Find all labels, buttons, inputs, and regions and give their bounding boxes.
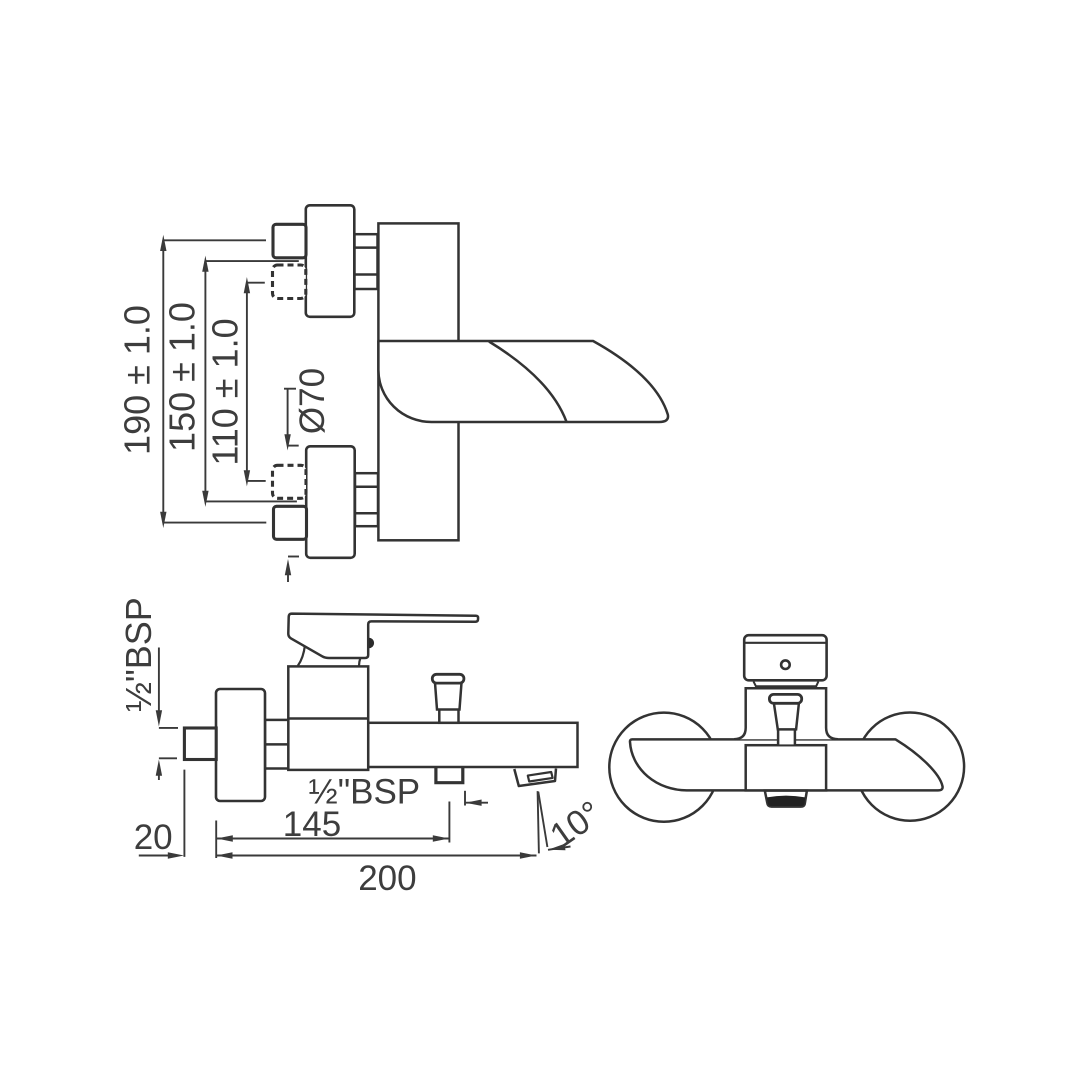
svg-text:½"BSP: ½"BSP (309, 773, 421, 812)
svg-text:200: 200 (358, 859, 416, 898)
svg-text:190 ± 1.0: 190 ± 1.0 (117, 305, 158, 455)
svg-text:110 ± 1.0: 110 ± 1.0 (205, 318, 246, 465)
svg-text:½"BSP: ½"BSP (118, 597, 159, 712)
svg-text:Ø70: Ø70 (293, 368, 332, 434)
svg-text:150 ± 1.0: 150 ± 1.0 (162, 302, 203, 452)
svg-text:20: 20 (134, 818, 173, 857)
